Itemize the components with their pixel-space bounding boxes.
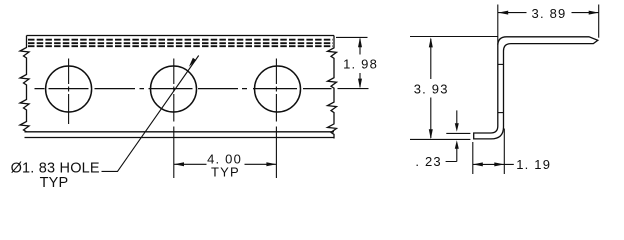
dimension 3.93 top extension: [410, 36, 498, 38]
vertical centerline hole 2 + extension: [173, 59, 175, 179]
side view: web tick 1: [498, 63, 504, 65]
svg-text:TYP: TYP: [40, 175, 69, 191]
dimension .23 upper arrow line: [456, 110, 458, 123]
leader line to hole: [102, 56, 199, 172]
dimension 1.19 line and leader: [473, 163, 514, 165]
dimension 1.19 right extension: [503, 129, 505, 175]
dimension 3.89 left extension: [497, 5, 499, 46]
dimension 3.89 left arrow: [498, 11, 508, 15]
svg-text:1. 98: 1. 98: [343, 57, 378, 72]
front view: bottom flange edge line 2: [25, 137, 335, 139]
dimension 1.19 left arrow: [473, 162, 483, 166]
vertical centerline hole 1: [68, 59, 70, 125]
svg-text:3. 93: 3. 93: [414, 82, 449, 97]
svg-text:. 23: . 23: [415, 154, 441, 169]
hole circle 1: [46, 66, 92, 112]
hole circle 3: [255, 66, 301, 112]
front view: bottom flange edge line 1: [25, 131, 335, 133]
dimension 3.93 bottom arrow: [429, 129, 433, 139]
dimension 3.89 right arrow: [589, 11, 599, 15]
svg-text:TYP: TYP: [211, 165, 240, 180]
dimension .23 lower arrow: [455, 140, 459, 149]
dimension 1.19 right arrow: [494, 162, 504, 166]
dimension .23 upper arrow: [455, 123, 459, 132]
dimension 4.00 line: [174, 163, 276, 165]
front view: hidden flange dashed row 3: [28, 45, 333, 47]
dimension 3.93 line: [430, 39, 432, 138]
side view: sheet profile outline: [474, 37, 598, 139]
dimension 4.00 left arrow: [174, 162, 184, 166]
front view: hidden flange dashed row 2: [28, 42, 333, 44]
dimension 1.98 bottom arrow: [358, 79, 362, 89]
horizontal centerline through holes: [35, 88, 332, 90]
dimension .23 upper extension: [446, 132, 470, 134]
svg-text:Ø1. 83 HOLE: Ø1. 83 HOLE: [11, 160, 100, 176]
dimension 3.93 top arrow: [429, 37, 433, 47]
front view: hidden flange dashed row 1: [28, 39, 333, 41]
dimension 4.00 right arrow: [266, 162, 276, 166]
dimension 3.89 line: [498, 12, 599, 14]
front view: right break edge with zigzags: [328, 36, 337, 139]
leader arrowhead: [189, 58, 196, 67]
svg-text:1. 19: 1. 19: [516, 157, 551, 172]
vertical centerline hole 3 + extension: [275, 59, 277, 179]
front view: left break edge with zigzags: [20, 36, 29, 132]
dimension 3.89 right extension: [598, 5, 600, 38]
dimension 3.93 bottom extension: [410, 138, 470, 140]
side view: web tick 2: [498, 112, 504, 114]
centerline extension for 1.98 dim: [338, 88, 369, 90]
front view: top edge line: [27, 35, 335, 37]
dimension .23 lower arrow line and leader: [446, 148, 457, 162]
dimension 1.98 extension line top: [336, 36, 368, 38]
svg-text:3. 89: 3. 89: [532, 6, 567, 21]
dimension 1.98 top arrow: [358, 37, 362, 47]
dimension 1.19 left extension: [472, 142, 474, 174]
hole circle 2: [151, 66, 197, 112]
dimension 1.98 line: [359, 39, 361, 87]
